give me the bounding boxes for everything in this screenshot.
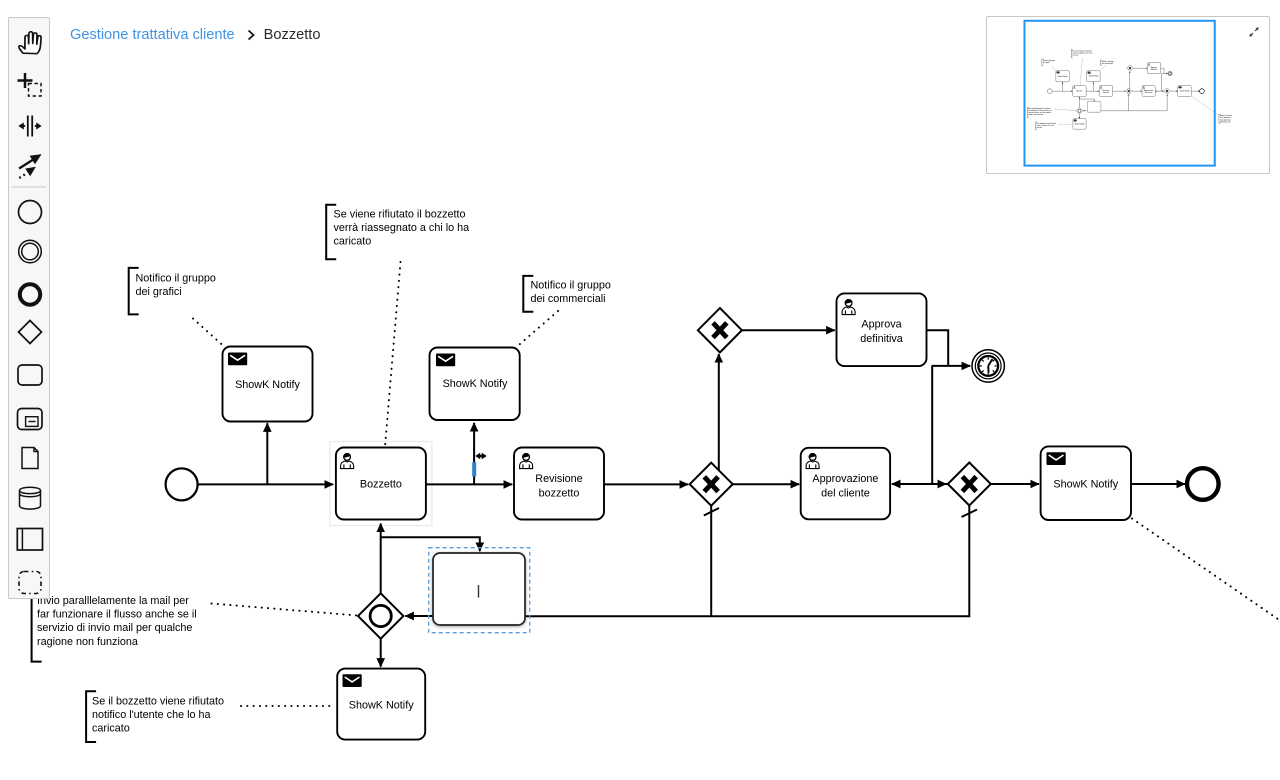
text cursor in new task <box>478 585 480 598</box>
minimap expand icon <box>1245 23 1263 41</box>
wire junction down into gateway G3 <box>932 366 946 484</box>
minimap <box>986 16 1270 174</box>
wire Revisione->gateway G2 <box>604 483 688 485</box>
svg-text:Se viene rifiutato il bozzetto: Se viene rifiutato il bozzetto <box>334 209 466 221</box>
svg-text:verrà riassegnato a chi lo ha: verrà riassegnato a chi lo ha <box>334 222 470 234</box>
wire Bozzetto->Revisione <box>426 483 512 485</box>
task ShowK Notify D <box>1041 446 1131 520</box>
palette <box>8 17 50 599</box>
wire new task->gateway G4 <box>405 615 433 617</box>
task Revisione bozzetto <box>514 448 604 520</box>
wire branch up to ShowK Notify B <box>473 423 475 485</box>
start event entry <box>19 201 42 224</box>
svg-text:Approva: Approva <box>861 319 901 331</box>
wire G4 up into Bozzetto <box>380 524 382 594</box>
selection dashed box around new task <box>429 548 530 633</box>
task entry <box>18 365 42 385</box>
breadcrumb <box>70 27 320 43</box>
wire G3 down and left into new task <box>525 506 969 617</box>
default marker G2 <box>704 508 719 516</box>
svg-text:dei commerciali: dei commerciali <box>531 293 606 305</box>
svg-text:ragione non funziona: ragione non funziona <box>37 636 138 648</box>
blue drag marker on flow <box>472 462 476 476</box>
svg-text:Approvazione: Approvazione <box>812 473 878 485</box>
separator <box>12 186 46 188</box>
annotation "Se viene rifiutato il bozzetto..." <box>326 205 469 259</box>
gateway G3 XOR <box>948 463 991 506</box>
selection overlays <box>429 453 530 633</box>
lasso tool icon <box>18 73 42 96</box>
wire G2 default flow down <box>710 506 712 617</box>
group entry <box>19 572 41 594</box>
svg-text:definitiva: definitiva <box>860 333 903 345</box>
svg-text:ShowK Notify: ShowK Notify <box>443 378 508 390</box>
wire branch into new task top <box>381 537 480 551</box>
association to Bozzetto annotation <box>385 262 401 447</box>
svg-text:notifico l'utente che lo ha: notifico l'utente che lo ha <box>92 709 211 721</box>
task ShowK Notify B <box>430 348 520 421</box>
svg-text:Se il bozzetto viene rifiutato: Se il bozzetto viene rifiutato <box>92 696 224 708</box>
space tool icon <box>18 116 41 137</box>
minimap viewport <box>1024 21 1214 166</box>
svg-text:caricato: caricato <box>334 236 372 248</box>
task ShowK Notify C <box>337 669 425 740</box>
start event <box>166 468 198 500</box>
svg-text:caricato: caricato <box>92 723 130 735</box>
svg-text:ShowK Notify: ShowK Notify <box>235 379 300 391</box>
task Approva definitiva <box>837 293 927 366</box>
timer event <box>972 350 1004 382</box>
svg-text:dei grafici: dei grafici <box>136 286 182 298</box>
svg-text:Invio paralllelamente la mail: Invio paralllelamente la mail per <box>37 595 189 607</box>
global connect tool icon <box>19 154 41 178</box>
participant entry <box>17 529 42 551</box>
svg-text:Notifico il gruppo: Notifico il gruppo <box>136 273 216 285</box>
annotation "Se il bozzetto viene rifiutato..." <box>86 691 224 742</box>
annotation "Notifico il gruppo dei grafici" <box>129 268 216 315</box>
svg-text:ShowK Notify: ShowK Notify <box>349 700 414 712</box>
svg-text:bozzetto: bozzetto <box>539 487 580 499</box>
wire branch up to ShowK Notify A <box>266 423 268 484</box>
hover outline around Bozzetto <box>330 442 432 526</box>
wire G1->Approva definitiva <box>742 329 835 331</box>
task ShowK Notify A <box>223 347 313 422</box>
svg-text:far funzionare il flusso anche: far funzionare il flusso anche se il <box>37 609 197 621</box>
wire G4 down into ShowK Notify C <box>380 639 382 667</box>
association to ShowK C annotation <box>241 705 335 707</box>
data object entry <box>22 448 38 469</box>
wire G3->ShowK Notify D <box>991 483 1039 485</box>
association from ShowK D to offscreen annotation <box>1132 519 1280 647</box>
default marker G3 <box>962 510 978 518</box>
wire ShowK Notify D->end <box>1131 483 1185 485</box>
wire Approva definitiva right elbow <box>927 330 949 366</box>
svg-text:Notifico il gruppo: Notifico il gruppo <box>531 280 611 292</box>
intermediate event entry <box>19 240 42 263</box>
wire start->Bozzetto <box>198 483 333 485</box>
wire G2->Approvazione del cliente <box>733 483 799 485</box>
data store entry <box>20 487 41 509</box>
annotation "Invio paralllelamente la mail..." <box>32 593 197 662</box>
gateway G2 XOR <box>690 463 733 506</box>
association to ShowK A annotation <box>193 319 224 347</box>
svg-text:ShowK Notify: ShowK Notify <box>1053 478 1118 490</box>
task Bozzetto <box>336 448 426 520</box>
svg-text:Revisione: Revisione <box>535 473 582 485</box>
wire into timer event <box>932 365 971 367</box>
gateway G1 XOR <box>698 308 742 352</box>
subprocess entry <box>18 409 43 430</box>
task Approvazione del cliente <box>801 448 890 520</box>
association to G4 annotation <box>212 604 358 616</box>
annotation "Notifico il gruppo dei commerciali" <box>523 276 611 312</box>
svg-text:Bozzetto: Bozzetto <box>360 478 402 490</box>
gateway G4 inclusive <box>358 593 403 638</box>
gateway entry <box>19 321 42 344</box>
svg-text:del cliente: del cliente <box>821 487 870 499</box>
end event entry <box>20 284 40 304</box>
end event <box>1187 468 1219 500</box>
association to ShowK B annotation <box>517 311 559 347</box>
resize cursor icon <box>475 453 486 460</box>
wire G2 up to gateway G1 <box>718 354 720 471</box>
task new (being created) <box>433 553 525 625</box>
svg-text:servizio di invio mail per qua: servizio di invio mail per qualche <box>37 622 192 634</box>
hand tool icon <box>19 32 41 54</box>
wire G3->Approvazione del cliente <box>892 483 948 485</box>
